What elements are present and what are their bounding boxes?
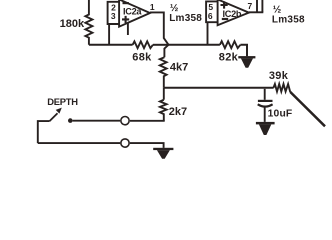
svg-text:IC2b: IC2b [223,9,242,19]
svg-text:82k: 82k [219,51,239,63]
svg-text:6: 6 [208,11,213,21]
wire switch to jack top [73,120,121,122]
capacitor C 10uF [258,89,293,122]
ground G3 [153,148,173,159]
svg-text:68k: 68k [132,51,152,63]
wire rail A left [89,44,133,46]
svg-text:IC2a: IC2a [123,7,142,17]
resistor 180k [60,0,93,45]
svg-text:2k7: 2k7 [169,106,187,118]
resistor 4k7 [160,57,188,88]
wire rail A right [168,44,220,46]
svg-text:3: 3 [111,11,116,21]
jack terminal top [121,117,129,125]
svg-text:39k: 39k [269,70,289,82]
wire jack bottom to ground [130,143,164,148]
resistor 68k [132,41,153,63]
wire IC2b pin6 drop [207,22,209,45]
wire output up arm left [256,0,258,12]
label half Lm358 for IC2a [169,3,202,24]
node input bracket IC2a pins 2,3 [108,2,119,24]
ground G2 [256,122,275,135]
svg-text:Lm358: Lm358 [272,15,305,26]
wire rail B [164,87,274,89]
label half Lm358 for IC2b [272,5,305,26]
wire 2k7 to jack top [130,120,165,122]
wire 4k7 to 2k7 [163,88,165,100]
switch DEPTH [38,96,78,143]
svg-text:7: 7 [248,1,253,11]
svg-text:1: 1 [150,2,155,12]
op-amp U IC2a [119,0,155,27]
resistor 39k [269,70,290,92]
wire rail A middle [153,44,169,46]
svg-text:DEPTH: DEPTH [47,96,78,107]
wire IC2a pin3 drop [108,24,110,45]
wire IC2a pin4 stub [127,23,129,35]
node input bracket IC2b pins 5,6 [206,1,217,22]
wire 82k to ground [240,45,247,56]
resistor 82k [219,41,241,63]
op-amp U IC2b [218,0,253,25]
ground G1 [238,56,255,68]
wire IC2b output stub [249,11,263,13]
svg-text:10uF: 10uF [268,109,293,120]
svg-text:180k: 180k [60,18,85,30]
svg-text:4k7: 4k7 [170,62,188,74]
wire diagonal to pot [290,92,325,126]
wire IC2a output down chain [150,12,169,57]
svg-text:Lm358: Lm358 [169,13,202,24]
wire switch to jack bottom [38,142,120,144]
jack terminal bottom [121,139,129,147]
wire output up arm right [261,0,263,12]
resistor 2k7 [160,100,187,121]
